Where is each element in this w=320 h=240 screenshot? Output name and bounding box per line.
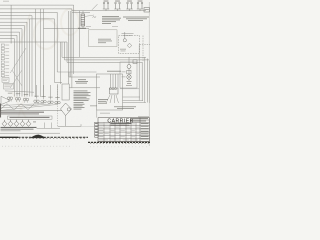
node tick label — [33, 121, 36, 124]
defrost thermostat DFT (diamond) — [127, 43, 131, 47]
wire — [61, 42, 63, 57]
wire — [0, 41, 67, 43]
wire — [92, 4, 98, 10]
node note text — [3, 0, 9, 3]
wire — [30, 18, 55, 20]
node note text — [78, 78, 86, 81]
wire — [0, 104, 51, 108]
wire — [82, 26, 84, 29]
plug P2 (diamond) — [8, 121, 13, 126]
title block grid — [98, 122, 150, 124]
node note text — [114, 105, 136, 108]
wire — [69, 11, 71, 77]
wire — [57, 85, 59, 100]
wire — [58, 125, 81, 127]
contactor C6 — [41, 100, 44, 103]
wire — [0, 104, 2, 118]
node label text — [122, 71, 126, 74]
wire — [80, 124, 82, 126]
wire — [24, 26, 26, 97]
node note text — [74, 101, 84, 104]
wire — [73, 5, 75, 74]
node film dust row — [2, 145, 70, 147]
wire — [44, 123, 46, 129]
scale bar mound — [31, 135, 46, 138]
wire — [69, 87, 100, 89]
wire — [0, 4, 74, 6]
dashed boundary wire — [57, 84, 59, 126]
contactor C8 — [55, 101, 58, 104]
wire — [124, 32, 126, 39]
wire — [96, 110, 98, 118]
wire — [146, 59, 148, 103]
wire — [55, 82, 63, 84]
wire — [0, 28, 22, 30]
wire — [128, 57, 130, 64]
system protection label box — [8, 116, 53, 119]
node note text — [123, 16, 149, 19]
wire — [0, 8, 72, 10]
plug P4 (diamond) — [20, 121, 25, 126]
node cap label — [90, 105, 97, 108]
heat relay HR — [62, 84, 69, 100]
wire — [37, 127, 61, 129]
wire — [67, 61, 142, 63]
circuit breaker CB3 — [127, 3, 129, 9]
wire — [69, 76, 100, 78]
wire — [148, 61, 150, 104]
node watermark — [34, 19, 58, 49]
wire — [134, 59, 136, 61]
wire — [140, 44, 151, 46]
node label text — [98, 98, 108, 101]
contactor C3 — [15, 98, 18, 101]
wire — [0, 132, 60, 134]
wire — [141, 62, 143, 101]
wire — [10, 5, 12, 43]
wire — [44, 28, 90, 30]
wire — [21, 29, 23, 97]
relay coil K1 — [110, 88, 112, 90]
condenser section box — [120, 62, 137, 88]
legend note box 2 — [4, 84, 14, 90]
node label text — [98, 38, 111, 41]
scale bar right — [88, 141, 150, 143]
wire — [0, 109, 62, 111]
circuit breaker CB2 — [115, 3, 117, 9]
node title block text — [99, 123, 104, 126]
wire — [5, 91, 34, 92]
revision table — [95, 122, 99, 137]
wire — [0, 25, 25, 27]
wire — [72, 12, 90, 14]
wire — [0, 104, 34, 110]
node note text — [102, 15, 119, 18]
wire — [81, 125, 95, 127]
node drawing number text — [141, 122, 149, 125]
node note text — [1, 111, 44, 114]
wire — [64, 42, 66, 60]
wire — [0, 11, 57, 13]
wire — [50, 85, 52, 100]
circuit breaker CB4 — [137, 3, 139, 9]
wire — [148, 2, 150, 146]
node label text — [120, 48, 126, 51]
wire — [65, 116, 67, 127]
plug P3 (diamond) — [14, 121, 19, 126]
contactor coil C1 — [123, 39, 126, 42]
wire — [60, 42, 62, 84]
title block header cells — [130, 118, 132, 123]
node corner note — [138, 116, 149, 119]
wire — [117, 74, 119, 88]
wire — [0, 21, 27, 23]
wire — [68, 72, 70, 77]
wire — [128, 79, 130, 81]
crankcase heater HTR1 — [81, 14, 85, 26]
wire — [0, 104, 44, 106]
wire — [12, 70, 22, 86]
wire — [85, 15, 95, 17]
transformer TRAN — [110, 88, 119, 94]
wire — [110, 74, 112, 88]
wire — [0, 34, 17, 36]
wire — [138, 45, 140, 101]
wire — [35, 9, 37, 97]
wire — [65, 59, 150, 61]
node film dust row — [90, 146, 148, 148]
fan motor OFM1 — [127, 65, 131, 69]
wire — [0, 31, 20, 33]
wire — [57, 71, 96, 73]
title block frame — [98, 117, 150, 119]
wire — [62, 56, 146, 58]
contactor C7 — [48, 101, 51, 104]
control box CTRL — [97, 74, 123, 110]
legend symbol list — [1, 44, 4, 46]
capacitor OFC1 — [127, 70, 131, 74]
contactor C4 — [23, 98, 26, 101]
scale bar left — [0, 136, 18, 138]
plug P1 (diamond) — [2, 121, 7, 126]
node note above title block — [100, 112, 110, 115]
wire — [123, 96, 141, 98]
wire — [29, 19, 31, 97]
wire — [72, 10, 146, 12]
relay coil K3 — [115, 88, 117, 90]
wire — [82, 11, 84, 14]
wire — [14, 39, 16, 97]
wire — [115, 74, 117, 88]
compressor terminal marks — [127, 80, 132, 83]
wire — [68, 11, 70, 84]
wire — [54, 19, 56, 83]
flow switch FS (diamond) — [61, 103, 72, 116]
wire — [0, 38, 15, 40]
node notes band — [1, 127, 37, 128]
relay coil K2 — [112, 88, 114, 90]
plug P5 (diamond) — [26, 121, 31, 126]
wire — [0, 104, 58, 110]
wire — [0, 18, 30, 20]
wire — [0, 15, 32, 17]
node label 24V — [112, 25, 118, 28]
wire — [19, 32, 21, 96]
wire — [128, 69, 130, 75]
node label LEFT REAR — [78, 27, 86, 30]
wire — [40, 9, 42, 97]
circuit breaker CB1 — [103, 3, 105, 9]
wire — [43, 9, 45, 97]
wire — [26, 22, 28, 96]
legend note box — [2, 78, 9, 83]
fan motor OFM2 — [127, 75, 131, 79]
ground — [0, 0, 150, 150]
wire — [79, 11, 81, 58]
node paper grain — [0, 0, 150, 150]
wire — [112, 74, 114, 88]
wire — [56, 12, 58, 72]
start capacitor box — [133, 60, 137, 64]
node note text — [74, 90, 88, 93]
wire — [36, 85, 38, 99]
fuse block FB1 — [144, 8, 150, 12]
wire — [144, 58, 146, 103]
node equip ground — [93, 17, 97, 18]
contactor C2 — [7, 97, 10, 100]
relay box R1 — [119, 36, 140, 54]
pressure switch HPS — [67, 108, 70, 111]
wire — [142, 36, 144, 63]
wire — [120, 88, 139, 90]
terminal box TB1 — [89, 30, 118, 47]
wire — [51, 123, 53, 129]
wire — [16, 35, 18, 96]
wire — [66, 42, 68, 62]
node label text above relay box — [122, 32, 134, 35]
node dense row under logotype — [111, 122, 132, 125]
horn antenna feed (bowtie) — [1, 96, 11, 104]
node label LEFT SIDE — [86, 25, 91, 28]
wire — [106, 95, 110, 103]
wire — [43, 85, 45, 99]
wire — [31, 16, 33, 97]
node pin labels — [107, 70, 121, 73]
wire — [71, 9, 73, 88]
wire — [10, 48, 26, 73]
wire — [10, 70, 22, 88]
contactor C5 — [34, 100, 37, 103]
